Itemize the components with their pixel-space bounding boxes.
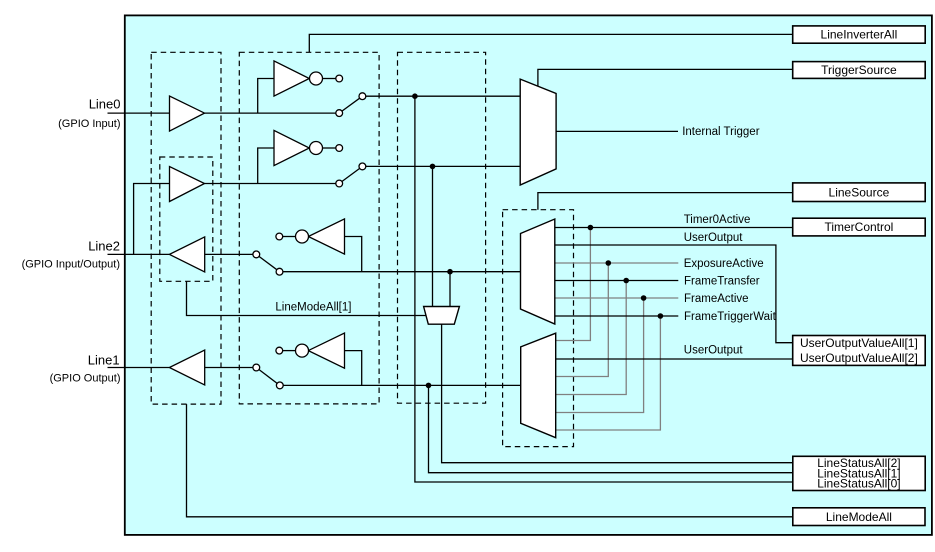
svg-text:Timer0Active: Timer0Active: [684, 214, 751, 226]
svg-text:LineSource: LineSource: [829, 185, 890, 199]
svg-text:LineStatusAll[0]: LineStatusAll[0]: [817, 477, 900, 491]
svg-text:Line2: Line2: [88, 238, 120, 253]
svg-text:LineModeAll: LineModeAll: [826, 510, 892, 524]
svg-text:Line1: Line1: [88, 353, 120, 368]
svg-text:UserOutput: UserOutput: [684, 232, 744, 244]
svg-text:LineModeAll[1]: LineModeAll[1]: [275, 302, 351, 314]
svg-text:LineInverterAll: LineInverterAll: [821, 28, 898, 42]
svg-text:Line0: Line0: [89, 97, 121, 112]
svg-text:FrameActive: FrameActive: [684, 293, 749, 305]
svg-text:TriggerSource: TriggerSource: [821, 63, 897, 77]
svg-text:(GPIO Output): (GPIO Output): [50, 373, 121, 385]
svg-text:FrameTriggerWait: FrameTriggerWait: [684, 311, 777, 323]
svg-text:FrameTransfer: FrameTransfer: [684, 275, 760, 287]
svg-text:UserOutput: UserOutput: [684, 345, 744, 357]
svg-text:(GPIO Input/Output): (GPIO Input/Output): [22, 259, 120, 271]
svg-text:(GPIO Input): (GPIO Input): [58, 118, 120, 130]
svg-text:Internal Trigger: Internal Trigger: [682, 126, 760, 138]
svg-text:TimerControl: TimerControl: [824, 220, 893, 234]
svg-text:UserOutputValueAll[2]: UserOutputValueAll[2]: [800, 351, 918, 365]
svg-text:ExposureActive: ExposureActive: [684, 258, 764, 270]
svg-text:UserOutputValueAll[1]: UserOutputValueAll[1]: [800, 336, 918, 350]
